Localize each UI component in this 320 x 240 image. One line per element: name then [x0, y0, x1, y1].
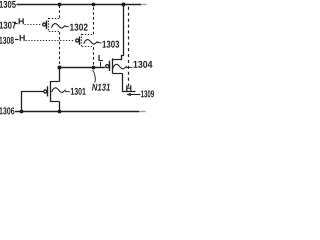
wire (dashed vertical, would-be path to output) — [128, 7, 130, 88]
leader dash 1308 — [15, 39, 18, 41]
wire (1304 source down to output) — [123, 74, 136, 92]
transistor 1304 (solid PMOS) — [106, 58, 123, 73]
junction dot (rail 1306 / 1301 gate) — [20, 110, 24, 114]
junction dot (rail / 1304 drain) — [122, 3, 126, 7]
transistor 1301 (solid PMOS, pull-down leg) — [44, 81, 60, 102]
label 1302 with leader — [66, 25, 70, 27]
leader dash 1307 — [14, 23, 18, 25]
junction dot (N131 / 1303 source) — [92, 66, 96, 70]
label 1305 — [0, 1, 16, 8]
highlight squiggle on 1303 — [84, 40, 98, 45]
transistor 1303 (dashed PMOS) — [76, 34, 94, 48]
wire (1304 drain up to rail, with jog) — [122, 5, 124, 60]
power rail 1305 (top) — [17, 4, 142, 6]
highlight squiggle on 1301 — [52, 88, 66, 93]
label N131 with leader — [93, 70, 96, 83]
highlight squiggle on 1304 — [113, 64, 127, 69]
label 1306 — [0, 107, 14, 114]
wire (dashed, 1302 source down to node N131) — [59, 32, 61, 65]
ground rail 1306 (bottom) — [15, 111, 139, 113]
wire (dashed, 1303 drain to rail) — [93, 6, 95, 35]
wire (1301 gate to rail 1306) — [22, 92, 44, 112]
highlight squiggle on 1302 — [52, 24, 66, 29]
node level H (output) — [126, 85, 131, 91]
node level H (input 1307) — [19, 18, 24, 24]
junction dot (rail 1306 / 1301 source) — [58, 110, 62, 114]
wire (gate of 1302, dotted) — [25, 24, 42, 26]
wire (1301 drain up to node N131) — [59, 67, 61, 82]
label 1309 with arrow — [127, 94, 140, 96]
label 1308 — [0, 37, 14, 44]
label 1303 with leader — [98, 41, 102, 44]
wire (1301 source down to rail 1306) — [59, 102, 61, 112]
wire (dashed, 1303 source down to node N131) — [93, 47, 95, 64]
junction dot (N131 / 1301 drain / 1302 source) — [58, 66, 62, 70]
node level L (gate of 1304) — [98, 55, 103, 61]
junction dot (rail / 1303 drain) — [92, 3, 96, 7]
node N131 wire (solid) — [60, 67, 105, 69]
wire (dashed, 1302 drain to rail) — [59, 6, 61, 18]
junction dot (rail / 1302 drain) — [58, 3, 62, 7]
node level H (input 1308) — [20, 35, 25, 41]
wire (gate of 1303, dotted) — [26, 40, 75, 42]
transistor 1302 (dashed PMOS) — [43, 18, 59, 32]
label 1301 with leader — [66, 90, 71, 92]
label 1304 with leader — [127, 66, 133, 68]
label 1307 — [0, 22, 16, 29]
leader tick from L to node wire — [100, 62, 102, 67]
